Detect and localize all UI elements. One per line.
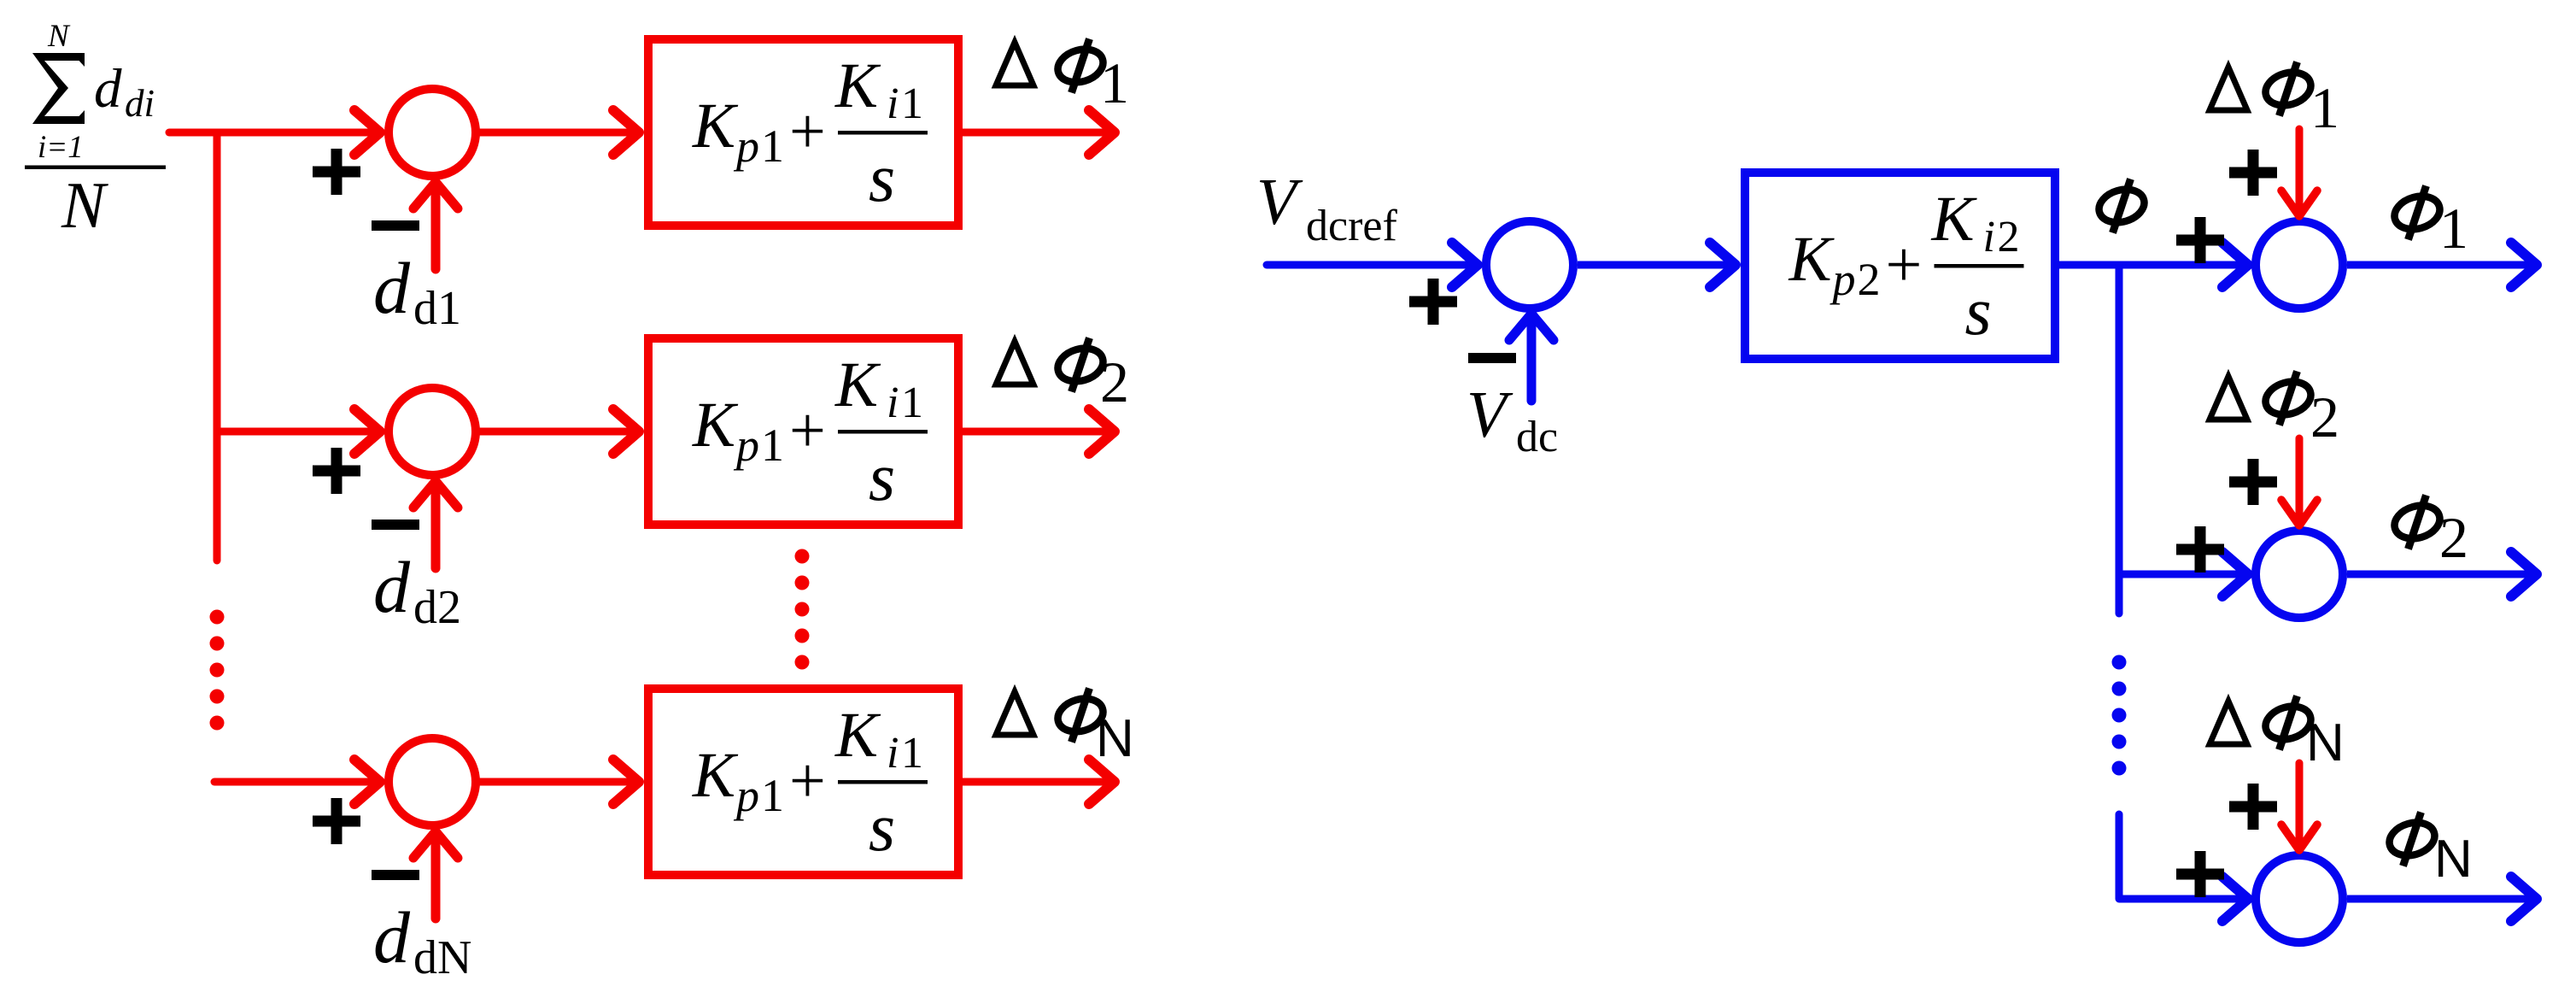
label V_dcref (1256, 165, 1397, 250)
wire: O2 output Phi_2 (2347, 571, 2533, 578)
svg-text:d1: d1 (413, 282, 461, 335)
svg-text:N: N (2434, 830, 2473, 889)
svg-text:p: p (733, 770, 759, 821)
arrowhead into summing junction S3 (354, 760, 380, 804)
label Phi (common phase output) (2095, 179, 2148, 233)
wire: vertical trunk distributing input (214, 132, 221, 561)
svg-text:s: s (869, 790, 895, 866)
arrowhead into summing junction S2 (354, 409, 380, 454)
label Phi_1 (2391, 186, 2444, 240)
summing junction S2 (red row 2) (389, 388, 476, 475)
svg-text:i: i (887, 79, 899, 128)
minus sign at SB lower input (1468, 357, 1516, 359)
arrowhead O2 output (2511, 552, 2537, 596)
svg-text:1: 1 (1100, 50, 1129, 115)
label Phi_2 (2391, 496, 2444, 549)
Kp2 block formula text (1789, 184, 2024, 349)
svg-text:K: K (692, 390, 739, 461)
svg-text:i=1: i=1 (38, 130, 84, 165)
plus sign beside Delta-Phi arrow into O3 (2229, 784, 2277, 830)
svg-text:1: 1 (761, 770, 784, 821)
wire: O3 output Phi_N (2347, 895, 2533, 903)
svg-text:s: s (869, 440, 895, 515)
dotted continuation between PI blocks (795, 549, 810, 670)
svg-text:d: d (373, 247, 411, 329)
svg-text:d: d (373, 546, 411, 628)
wire: d_dN feedback up into S3 (431, 835, 441, 919)
arrowhead up into SB (1509, 314, 1554, 340)
svg-text:K: K (834, 50, 881, 121)
svg-text:p: p (1830, 254, 1856, 305)
svg-text:p: p (733, 120, 759, 172)
label Delta-Phi_N above O3 (2210, 702, 2247, 745)
svg-text:dcref: dcref (1306, 202, 1397, 250)
wire: S2 output into PI block 2 (476, 428, 635, 436)
output summing junction O2 (2256, 531, 2343, 618)
svg-text:+: + (789, 96, 826, 167)
arrowhead into PI block 1 (613, 110, 639, 155)
wire: red Delta-Phi_2 down into O2 (2296, 438, 2304, 521)
plus sign at S2 input (313, 448, 360, 494)
PI controller block Kp1+Ki1/s (row 2) (648, 338, 958, 525)
wire: block 3 output (963, 778, 1111, 786)
svg-text:s: s (1965, 274, 1992, 349)
svg-text:i: i (887, 379, 899, 427)
arrowhead into output junction O1 (2222, 243, 2248, 287)
svg-text:N: N (1096, 709, 1134, 768)
plus sign beside Delta-Phi arrow into O2 (2229, 459, 2277, 505)
svg-text:1: 1 (2439, 196, 2468, 261)
wire: red Delta-Phi_1 down into O1 (2296, 129, 2304, 212)
wire: Kp2 block output to first output junction (2059, 261, 2245, 269)
svg-text:K: K (834, 349, 881, 420)
arrowhead into summing junction S1 (354, 110, 380, 155)
svg-text:dc: dc (1516, 413, 1558, 461)
plus sign beside Delta-Phi arrow into O1 (2229, 150, 2277, 196)
label Delta-Phi_2 (red row 2) (996, 342, 1033, 385)
wire: block 2 output (963, 428, 1111, 436)
svg-text:K: K (692, 740, 739, 811)
wire: branch to N-th summing junction (214, 778, 379, 786)
arrowhead block 3 output (1089, 760, 1115, 804)
wire: branch to output junction O2 (2119, 571, 2245, 578)
minus sign at S1 lower input (372, 225, 419, 226)
wire: S3 output into PI block 3 (476, 778, 635, 786)
svg-text:2: 2 (1998, 213, 2020, 261)
svg-text:d2: d2 (413, 581, 461, 634)
PI controller block Kp2+Ki2/s (1745, 173, 2055, 359)
svg-text:K: K (834, 700, 881, 771)
svg-text:s: s (869, 141, 895, 216)
arrowhead O3 output (2511, 877, 2537, 921)
arrowhead block 1 output (1089, 110, 1115, 155)
svg-text:+: + (789, 745, 826, 817)
wire: d_d1 feedback up into S1 (431, 185, 441, 269)
wire: S1 output into PI block 1 (476, 129, 635, 137)
minus sign at S2 lower input (372, 524, 419, 525)
plus sign on Phi wire into O3 (2176, 851, 2224, 897)
wire: d_d2 feedback up into S2 (431, 484, 441, 568)
wire: vertical distribution of Phi (2116, 265, 2123, 613)
svg-text:i: i (887, 729, 899, 778)
block 3 formula text (692, 700, 928, 866)
output summing junction O1 (2256, 221, 2343, 308)
arrowhead into PI block 2 (613, 409, 639, 454)
block 2 formula text (692, 349, 928, 515)
plus sign on Phi wire into O1 (2176, 217, 2224, 263)
arrowhead into SB (1452, 243, 1478, 287)
svg-text:2: 2 (2310, 385, 2339, 449)
wire: red Delta-Phi_N down into O3 (2296, 763, 2304, 846)
svg-text:N: N (2306, 713, 2345, 772)
arrowhead up into S1 (413, 182, 458, 208)
svg-text:+: + (789, 395, 826, 467)
svg-text:V: V (1256, 165, 1303, 238)
arrowhead block 2 output (1089, 409, 1115, 454)
svg-text:2: 2 (1858, 254, 1881, 305)
svg-text:1: 1 (901, 79, 923, 128)
plus sign at SB input (1409, 279, 1457, 325)
svg-text:dN: dN (413, 931, 471, 984)
svg-text:V: V (1467, 378, 1513, 451)
svg-text:1: 1 (901, 379, 923, 427)
svg-text:1: 1 (761, 420, 784, 471)
wire: block 1 output (963, 129, 1111, 137)
input label: sum over i of d_di divided by N (25, 19, 166, 242)
arrowhead up into S3 (413, 831, 458, 858)
label V_dc (1467, 378, 1558, 461)
svg-text:1: 1 (901, 729, 923, 778)
svg-text:K: K (1789, 224, 1835, 295)
svg-text:N: N (47, 19, 71, 54)
arrowhead O1 output (2511, 243, 2537, 287)
wire: SB output into PI block Kp2 (1578, 261, 1732, 269)
svg-text:1: 1 (2310, 75, 2339, 140)
summing junction SB (voltage loop) (1486, 221, 1573, 308)
plus sign at S1 input (313, 149, 360, 195)
summing junction S1 (red row 1) (389, 89, 476, 176)
arrowhead into Kp2 block (1710, 243, 1736, 287)
arrowhead down into O2 (2281, 500, 2317, 525)
label Delta-Phi_1 above O1 (2210, 68, 2247, 111)
arrowhead into PI block 3 (613, 760, 639, 804)
svg-text:1: 1 (761, 120, 784, 172)
svg-text:p: p (733, 420, 759, 471)
wire: input feed to first summing junction (169, 129, 379, 137)
label Delta-Phi_2 above O2 (2210, 377, 2247, 420)
PI controller block Kp1+Ki1/s (row 3) (648, 689, 958, 875)
wire: V_dc feedback up into SB (1527, 318, 1537, 401)
svg-text:K: K (1931, 184, 1978, 255)
wire: branch to second summing junction (217, 428, 379, 436)
plus sign at S3 input (313, 798, 360, 844)
label Phi_N (2386, 813, 2438, 866)
arrowhead down into O3 (2281, 825, 2317, 850)
svg-text:i: i (1983, 213, 1995, 261)
block 1 formula text (692, 50, 928, 216)
plus sign on Phi wire into O2 (2176, 526, 2224, 572)
arrowhead up into S2 (413, 481, 458, 508)
label Delta-Phi_1 (red row 1) (996, 43, 1033, 86)
wire: O1 output Phi_1 (2347, 261, 2533, 269)
arrowhead into O2 (2222, 552, 2248, 596)
output summing junction O3 (2256, 855, 2343, 942)
wire: corner branch to output junction ON (2119, 814, 2245, 899)
svg-text:d: d (94, 58, 122, 120)
label Delta-Phi_N (red row 3) (996, 692, 1033, 736)
summing junction S3 (red row 3) (389, 738, 476, 825)
arrowhead into ON (2222, 877, 2248, 921)
minus sign at S3 lower input (372, 874, 419, 876)
PI controller block Kp1+Ki1/s (row 1) (648, 39, 958, 226)
dotted continuation of trunk (210, 610, 225, 731)
svg-text:+: + (1886, 229, 1923, 301)
svg-text:K: K (692, 91, 739, 161)
svg-text:d: d (373, 896, 411, 978)
svg-text:N: N (61, 168, 108, 242)
svg-text:2: 2 (1100, 349, 1129, 414)
wire: V_dcref into summing junction SB (1267, 261, 1474, 269)
svg-text:2: 2 (2439, 505, 2468, 570)
arrowhead down into O1 (2281, 191, 2317, 216)
svg-text:di: di (125, 82, 155, 125)
dotted continuation of Phi distribution (2112, 655, 2127, 776)
